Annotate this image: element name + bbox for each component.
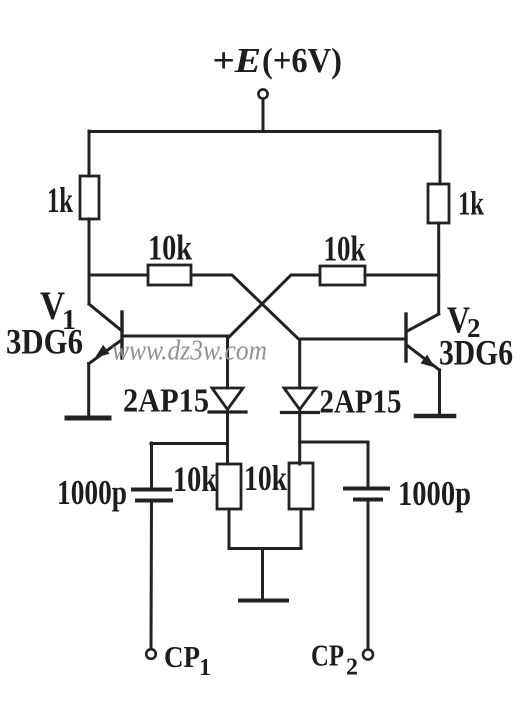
svg-text:1k: 1k bbox=[47, 180, 73, 220]
power label +E (+6V) bbox=[212, 41, 342, 80]
svg-text:+E: +E bbox=[212, 41, 261, 80]
wire: right rail to R2 bbox=[439, 131, 442, 184]
wire: left 10k left lead bbox=[89, 274, 148, 277]
svg-text:1k: 1k bbox=[458, 186, 484, 223]
wire: V1 emitter to ground bbox=[87, 364, 90, 417]
svg-text:2: 2 bbox=[346, 655, 358, 681]
resistor R6 10k (bottom right) bbox=[289, 463, 313, 509]
ground (center) bbox=[240, 599, 287, 603]
wire: terminal to top rail bbox=[262, 99, 265, 131]
svg-text:2AP15: 2AP15 bbox=[320, 384, 402, 421]
wire: top rail bbox=[89, 130, 440, 133]
svg-text:CP: CP bbox=[311, 638, 344, 673]
capacitor C2 1000p (right) bbox=[345, 489, 388, 500]
wire: left 10k right lead + diagonal to V2 base node bbox=[191, 275, 298, 338]
svg-text:1000p: 1000p bbox=[57, 473, 127, 512]
wire: C1 top lead bbox=[150, 443, 153, 488]
wire: common node to center ground bbox=[261, 549, 264, 600]
resistor R4 10k (upper right) bbox=[320, 266, 365, 285]
svg-text:1000p: 1000p bbox=[398, 474, 471, 513]
svg-text:10k: 10k bbox=[148, 228, 192, 268]
diode D2 2AP15 (right) bbox=[282, 339, 319, 464]
svg-text:CP: CP bbox=[164, 639, 200, 674]
svg-text:3DG6: 3DG6 bbox=[439, 333, 513, 373]
resistor R1 1k (left) bbox=[80, 176, 99, 219]
svg-text:3DG6: 3DG6 bbox=[6, 322, 83, 362]
svg-text:10k: 10k bbox=[244, 458, 287, 498]
transistor V1 bbox=[89, 304, 122, 364]
resistor R5 10k (bottom left) bbox=[217, 464, 241, 509]
svg-text:(+6V): (+6V) bbox=[262, 41, 342, 80]
ground (right) bbox=[416, 414, 454, 419]
terminal CP2 bbox=[363, 650, 373, 660]
svg-text:1: 1 bbox=[199, 655, 211, 681]
wire: R1 bottom to collector corner bbox=[88, 219, 91, 304]
svg-text:2AP15: 2AP15 bbox=[123, 383, 209, 420]
wire: D1 node to C1 branch bbox=[151, 442, 228, 445]
svg-text:10k: 10k bbox=[173, 459, 217, 499]
wire: R2 bottom down to collector corner bbox=[437, 223, 440, 314]
wire: C2 top lead bbox=[367, 442, 370, 487]
resistor R2 1k (right) bbox=[428, 184, 449, 223]
wire: V2 emitter to ground bbox=[438, 370, 441, 414]
wire: bottom resistors to common node bbox=[229, 509, 301, 549]
resistor R3 10k (upper left) bbox=[148, 265, 191, 285]
wire: C1 bottom to CP1 bbox=[150, 500, 154, 649]
ground (left) bbox=[67, 416, 109, 421]
transistor V2 bbox=[406, 314, 440, 370]
wire: V2 base line bbox=[300, 338, 405, 341]
svg-text:10k: 10k bbox=[324, 229, 366, 269]
terminal CP1 bbox=[146, 649, 156, 659]
wire: right 10k left lead + diagonal to V1 base node bbox=[228, 275, 320, 338]
power terminal circle bbox=[258, 89, 267, 98]
diode D1 2AP15 (left) bbox=[209, 336, 246, 464]
wire: V1 base line bbox=[122, 335, 228, 338]
svg-text:www.dz3w.com: www.dz3w.com bbox=[112, 336, 267, 367]
wire: C2 bottom to CP2 bbox=[367, 500, 370, 650]
wire: right 10k right lead bbox=[365, 274, 439, 277]
wire: left rail to R1 bbox=[88, 131, 91, 176]
watermark www.dz3w.com bbox=[112, 336, 267, 367]
wire: D2 node to C2 branch bbox=[300, 441, 368, 444]
capacitor C1 1000p (left) bbox=[133, 490, 171, 501]
